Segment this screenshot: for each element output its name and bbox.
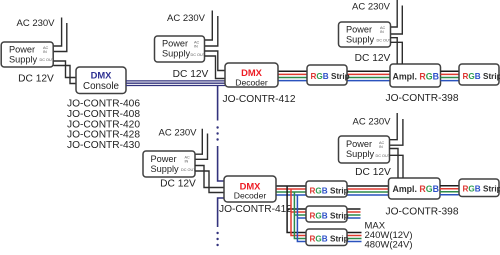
power supply PS4 xyxy=(339,22,391,47)
svg-text:DC 12V: DC 12V xyxy=(160,179,196,190)
svg-text:Supply: Supply xyxy=(346,149,374,159)
svg-text:DC OUT: DC OUT xyxy=(40,58,55,62)
wire AC L1 to PS3 xyxy=(195,129,202,154)
svg-text:AC 230V: AC 230V xyxy=(352,2,391,13)
DMX cable wire 3 xyxy=(126,85,225,87)
svg-text:DC 12V: DC 12V xyxy=(173,69,209,80)
wire DC- PS2 to decoder U2 xyxy=(205,56,226,79)
DMX bus continuation dots lower xyxy=(216,232,218,234)
RGB cable amplifier A2 to strip S6 xyxy=(440,185,459,187)
svg-text:RGB Strip: RGB Strip xyxy=(310,235,349,244)
svg-text:Console: Console xyxy=(83,81,119,92)
DMX bus continuation dots upper xyxy=(216,126,218,128)
svg-text:JO-CONTR-412: JO-CONTR-412 xyxy=(223,94,296,105)
wire DC+ PS4 to amplifier A1 xyxy=(391,38,398,64)
wire DC+ PS1 to console xyxy=(54,61,77,78)
svg-text:DC 12V: DC 12V xyxy=(355,167,391,178)
RGB strip S4 xyxy=(306,206,347,222)
wire DC- PS1 to console xyxy=(54,66,77,84)
wire AC L1 to PS5 xyxy=(390,113,398,140)
svg-text:DC OUT: DC OUT xyxy=(377,39,392,43)
RGB cable decoder U2 to amplifier A1: wire +12V xyxy=(278,70,390,72)
svg-text:Supply: Supply xyxy=(346,35,374,45)
svg-text:DMX: DMX xyxy=(241,67,263,78)
svg-text:JO-CONTR-412: JO-CONTR-412 xyxy=(219,204,292,215)
wire AC L1 to PS2 xyxy=(205,11,213,41)
wire AC L1 to PS4 xyxy=(391,0,398,27)
amplifier A2 xyxy=(389,178,441,199)
wire DC+ PS3 to decoder U3 xyxy=(195,166,224,188)
wire DC- PS4 to amplifier A1 xyxy=(391,42,403,64)
svg-text:Ampl. RGB: Ampl. RGB xyxy=(393,184,439,194)
svg-text:AC 230V: AC 230V xyxy=(158,128,197,139)
svg-text:DMX: DMX xyxy=(91,69,113,80)
power supply PS1 xyxy=(1,42,53,67)
wire DC+ PS2 to decoder U2 xyxy=(205,51,226,71)
wire AC N to PS4 xyxy=(391,6,403,35)
svg-text:RGB Strip: RGB Strip xyxy=(311,72,350,81)
wire DC- PS3 to decoder U3 xyxy=(195,171,224,193)
svg-text:DC 12V: DC 12V xyxy=(18,74,54,85)
svg-text:IN: IN xyxy=(194,45,198,49)
svg-text:JO-CONTR-398: JO-CONTR-398 xyxy=(386,93,459,104)
DMX decoder U3 xyxy=(224,176,276,202)
svg-text:Decoder: Decoder xyxy=(235,78,268,88)
DMX bus drop wire into decoder U3 xyxy=(218,146,224,181)
svg-text:DC OUT: DC OUT xyxy=(376,154,391,158)
wire B channel xyxy=(278,80,390,82)
DMX decoder U2 xyxy=(225,63,278,87)
svg-text:IN: IN xyxy=(379,145,383,149)
RGB strip S6 xyxy=(459,179,499,197)
wire R channel xyxy=(276,188,389,190)
svg-text:Decoder: Decoder xyxy=(234,191,267,201)
wire R channel xyxy=(441,73,460,75)
svg-text:JO-CONTR-420: JO-CONTR-420 xyxy=(67,119,140,130)
power supply PS2 xyxy=(155,36,205,62)
branch wire G to strips S4 S5 xyxy=(294,192,306,239)
svg-text:Power: Power xyxy=(151,154,177,164)
branch wire B to strips S4 S5 xyxy=(297,195,306,242)
svg-text:Supply: Supply xyxy=(151,164,179,174)
svg-text:RGB Strip: RGB Strip xyxy=(310,212,349,221)
svg-text:IN: IN xyxy=(380,30,384,34)
wire DC- PS5 to amplifier A2 xyxy=(390,155,404,178)
svg-text:Power: Power xyxy=(162,39,188,49)
wire DC+ PS5 to amplifier A2 xyxy=(390,149,399,179)
amplifier A1 xyxy=(390,64,441,87)
wire AC N to PS3 xyxy=(195,134,208,160)
DMX cable wire 1 xyxy=(126,80,225,82)
wire AC N to PS1 xyxy=(54,23,67,52)
svg-text:JO-CONTR-430: JO-CONTR-430 xyxy=(67,140,140,151)
svg-text:RGB Strip: RGB Strip xyxy=(463,185,500,194)
svg-text:DC OUT: DC OUT xyxy=(191,53,206,57)
power supply PS5 xyxy=(339,136,390,163)
svg-text:Supply: Supply xyxy=(162,49,190,59)
RGB strip S5 xyxy=(306,229,347,246)
svg-text:Supply: Supply xyxy=(9,55,37,65)
wire B channel xyxy=(276,194,389,196)
output stubs strip S4 xyxy=(347,208,361,210)
svg-text:Ampl. RGB: Ampl. RGB xyxy=(393,71,439,81)
output stubs strip S5 xyxy=(347,232,362,234)
power supply PS3 xyxy=(143,151,195,177)
branch wire R to strips S4 S5 xyxy=(291,189,306,236)
svg-text:DC 12V: DC 12V xyxy=(355,53,391,64)
svg-text:Power: Power xyxy=(346,25,372,35)
svg-text:RGB Strip: RGB Strip xyxy=(310,187,349,196)
svg-text:AC 230V: AC 230V xyxy=(352,117,391,128)
DMX cable wire 2 xyxy=(126,82,225,84)
svg-text:DC OUT: DC OUT xyxy=(181,168,196,172)
RGB cable decoder U3 to amplifier A2: wire +12V xyxy=(276,185,389,187)
wire R channel xyxy=(278,73,390,75)
svg-text:AC 230V: AC 230V xyxy=(16,18,55,29)
svg-text:JO-CONTR-398: JO-CONTR-398 xyxy=(386,207,459,218)
wire B channel xyxy=(441,80,460,82)
wire AC N to PS2 xyxy=(205,16,218,46)
svg-text:JO-CONTR-406: JO-CONTR-406 xyxy=(67,99,140,110)
wire G channel xyxy=(278,77,390,79)
svg-text:JO-CONTR-408: JO-CONTR-408 xyxy=(67,109,140,120)
wire AC N to PS5 xyxy=(390,119,403,145)
wire G channel xyxy=(441,77,460,79)
DMX console U1 xyxy=(76,67,126,94)
svg-text:IN: IN xyxy=(185,160,189,164)
DMX bus drop wire upper segment xyxy=(217,86,219,121)
RGB strip S3 xyxy=(306,181,347,197)
svg-text:JO-CONTR-428: JO-CONTR-428 xyxy=(67,130,140,141)
RGB strip S2 xyxy=(459,64,499,85)
RGB cable amplifier A1 to strip S2: wire +12V xyxy=(441,70,460,72)
wire AC L1 to PS1 xyxy=(54,18,62,47)
svg-text:RGB Strip: RGB Strip xyxy=(463,72,500,81)
branch wire +12V to strips S4 S5 xyxy=(287,186,306,233)
svg-text:AC 230V: AC 230V xyxy=(167,13,206,24)
RGB strip S1 xyxy=(307,65,347,85)
svg-text:IN: IN xyxy=(43,50,47,54)
wire G channel xyxy=(276,191,389,193)
DMX bus out of decoder U3 xyxy=(218,198,224,227)
svg-text:480W(24V): 480W(24V) xyxy=(365,240,413,251)
svg-text:Power: Power xyxy=(346,139,372,149)
svg-text:Power: Power xyxy=(9,45,35,55)
